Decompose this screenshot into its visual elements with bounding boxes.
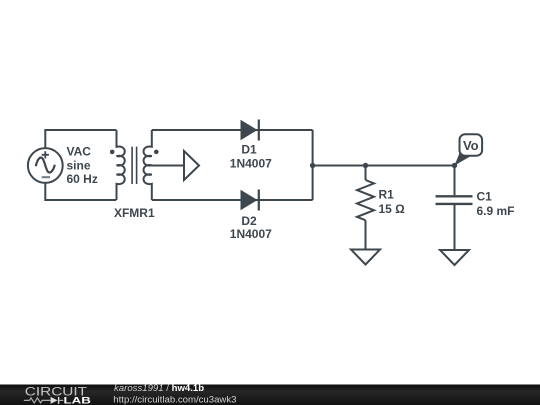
svg-text:1N4007: 1N4007 [230,156,272,170]
ground below R1 [351,250,380,265]
junction dot R1 [363,163,368,168]
svg-text:6.9 mF: 6.9 mF [477,204,515,218]
transformer XFMR1 secondary phase dot [154,150,159,155]
resistor R1 lead top [365,166,367,181]
svg-text:R1: R1 [379,188,395,202]
junction dot C1 / Vo [452,163,457,168]
CircuitLab logo circuit glyph (resistor + diode) [24,398,64,403]
wire left loop top [45,130,116,148]
ground at center tap (rotated right) [184,151,199,180]
transformer XFMR1 primary coil with leads [117,130,125,200]
svg-text:60 Hz: 60 Hz [67,172,98,186]
diode D1 cathode bar [258,120,260,141]
voltage source V1 circle [28,148,63,183]
resistor R1 lead bottom [365,220,367,249]
svg-text:D1: D1 [241,142,257,156]
junction dot diode output [310,163,315,168]
svg-text:VAC: VAC [67,145,92,159]
voltage source V1 sine glyph [36,158,55,173]
transformer XFMR1 primary phase dot [110,150,115,155]
svg-text:C1: C1 [477,190,493,204]
svg-text:Vo: Vo [463,138,479,153]
node Vo flag pointer [455,153,471,166]
svg-text:kaross1991 / hw4.1b: kaross1991 / hw4.1b [114,383,204,394]
node Vo flag box [460,134,483,155]
svg-text:sine: sine [67,158,91,172]
svg-text:LAB: LAB [64,395,92,405]
wire left loop bottom [45,183,116,200]
wire secondary top to D1 and node [152,129,313,131]
transformer XFMR1 core lines [132,147,137,184]
ground below C1 [440,250,469,265]
svg-text:http://circuitlab.com/cu3awk3: http://circuitlab.com/cu3awk3 [113,394,236,405]
wire secondary bottom to D2 and node [152,199,313,201]
svg-text:XFMR1: XFMR1 [114,206,155,220]
resistor R1 zigzag [357,180,374,220]
wire center tap [152,165,184,167]
svg-text:D2: D2 [241,214,257,228]
wire diode output vertical [312,130,314,200]
wire output node horizontal [313,165,455,167]
voltage source V1 minus sign [42,176,50,178]
svg-text:15 Ω: 15 Ω [379,202,406,216]
transformer XFMR1 secondary coil with leads [144,130,152,200]
diode D2 cathode bar [258,190,260,211]
capacitor C1 lead bottom [454,205,456,250]
capacitor C1 plates [436,196,473,204]
svg-text:1N4007: 1N4007 [230,227,272,241]
diode D2 body [241,190,258,211]
voltage source V1 plus sign [42,151,49,158]
diode D1 body [241,120,258,141]
capacitor C1 lead top [454,166,456,196]
